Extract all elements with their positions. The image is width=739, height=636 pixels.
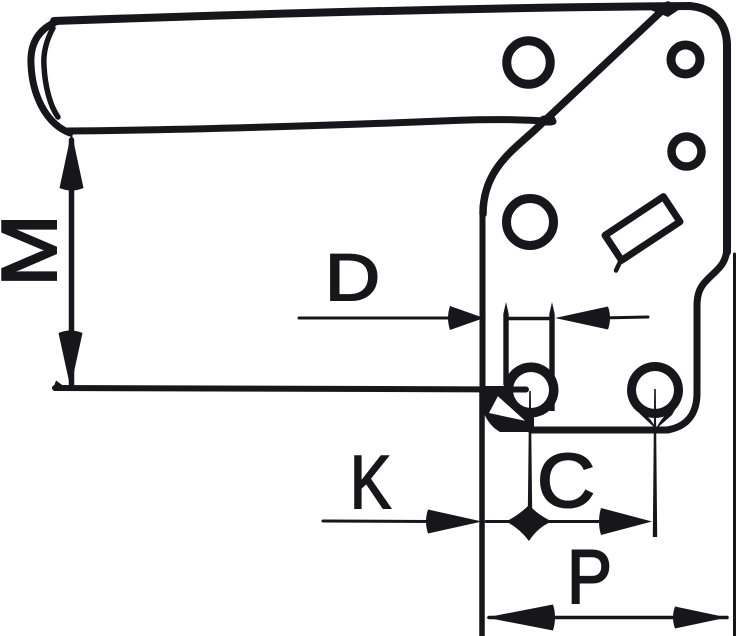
svg-text:K: K: [350, 440, 391, 524]
svg-text:D: D: [325, 240, 380, 314]
svg-text:C: C: [537, 439, 595, 524]
svg-text:M: M: [0, 214, 73, 287]
svg-text:P: P: [567, 535, 612, 620]
